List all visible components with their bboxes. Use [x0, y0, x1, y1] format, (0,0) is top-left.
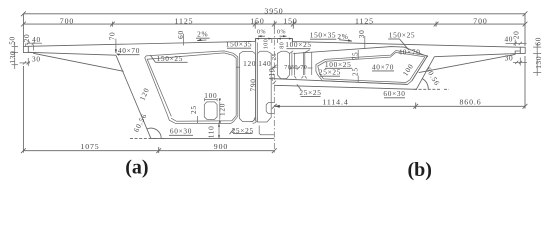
web outer face b [417, 57, 435, 89]
label 100x25 b near center [285, 40, 312, 49]
section b cell B1 near center [277, 51, 289, 78]
svg-text:30: 30 [357, 29, 366, 38]
right tip dims [504, 30, 542, 76]
svg-text:(a): (a) [125, 157, 148, 179]
cell B2 [302, 52, 304, 75]
svg-text:60×30: 60×30 [170, 127, 192, 136]
svg-text:25×25: 25×25 [319, 68, 341, 77]
bottom slab b top line [274, 79, 407, 85]
cantilever soffit left [28, 52, 116, 55]
svg-text:50: 50 [291, 65, 298, 71]
svg-text:0%: 0% [277, 30, 286, 36]
svg-text:70: 70 [107, 32, 116, 41]
left tip dims [8, 34, 42, 69]
cell a inner fillet accents [147, 53, 236, 121]
web outer face a [116, 55, 151, 138]
svg-text:150: 150 [283, 16, 297, 25]
deck center verticals and small dims [256, 38, 293, 50]
central wall pair a [255, 43, 257, 122]
dim 60 a ext [176, 30, 185, 45]
label 40x70 a [116, 46, 140, 56]
svg-text:25: 25 [350, 67, 359, 76]
label 2% a with arrow [196, 30, 210, 41]
svg-text:150×35: 150×35 [310, 31, 337, 40]
svg-text:860.6: 860.6 [459, 97, 481, 106]
svg-text:100×25: 100×25 [285, 40, 312, 49]
cell a2 narrow [239, 52, 255, 122]
svg-text:140: 140 [258, 59, 271, 68]
svg-text:60: 60 [176, 30, 185, 39]
svg-text:75: 75 [350, 52, 359, 61]
svg-text:70: 70 [300, 65, 307, 71]
drainage hole a [204, 102, 217, 120]
drip notch right [515, 51, 520, 54]
svg-text:150: 150 [250, 16, 264, 25]
svg-text:700: 700 [473, 16, 487, 25]
svg-text:150×25: 150×25 [389, 31, 416, 40]
dims 120 140 70 50 70 center row [236, 59, 313, 71]
svg-text:100: 100 [264, 39, 270, 50]
angle annotation b [414, 66, 449, 90]
dim 790 center a [248, 78, 257, 91]
svg-text:410: 410 [267, 68, 276, 81]
svg-text:1125: 1125 [355, 16, 374, 25]
hole dim 100 [204, 91, 217, 101]
centerline [273, 28, 275, 153]
bottom slab a [151, 137, 274, 139]
svg-text:30: 30 [505, 53, 514, 62]
svg-text:20: 20 [22, 34, 31, 43]
svg-text:25: 25 [272, 53, 278, 60]
lower chamfer line right [419, 54, 516, 72]
svg-text:20: 20 [512, 30, 521, 39]
label 120 diag web a [138, 86, 152, 102]
svg-text:790: 790 [248, 78, 257, 91]
dim 25 hole [189, 105, 198, 123]
angle annotation a [130, 112, 166, 139]
svg-text:60: 60 [534, 37, 543, 46]
dimension 3950 top chain [21, 7, 527, 17]
svg-text:50: 50 [8, 36, 17, 45]
wall faces b center [291, 53, 293, 76]
chamfer walls to deck [290, 51, 294, 54]
svg-text:0%: 0% [257, 30, 266, 36]
label 60x30 b [383, 89, 405, 98]
label 25x25 b cell [319, 68, 341, 77]
label 25x25 a with leader [230, 126, 254, 135]
dimension chain 700/1125/150/150/1125/700 [21, 14, 527, 46]
svg-text:100: 100 [204, 91, 217, 100]
svg-text:900: 900 [214, 142, 228, 151]
web inner face b [412, 56, 428, 81]
svg-text:25: 25 [189, 105, 198, 114]
svg-text:60×30: 60×30 [383, 89, 405, 98]
label 2% b with arrow [337, 32, 352, 42]
big cell b [316, 51, 428, 85]
main cell a outline [145, 51, 238, 124]
dim 110 slab a [207, 124, 220, 139]
edge beam left [23, 46, 28, 52]
svg-text:130: 130 [8, 51, 17, 64]
svg-text:1075: 1075 [80, 142, 99, 151]
half drainage hole at centerline a [266, 103, 274, 114]
center bottom recess a [250, 118, 274, 135]
svg-text:3950: 3950 [264, 7, 283, 16]
label 40x70 b top [398, 48, 420, 57]
cantilever soffit right [434, 53, 520, 56]
label 150x25 a [150, 54, 187, 63]
bottom slab b [274, 85, 417, 89]
svg-text:1125: 1125 [175, 16, 194, 25]
svg-text:40×70: 40×70 [372, 62, 394, 71]
bottom chain b 1114.4/860.6 [272, 56, 528, 109]
cell a3 [257, 51, 271, 122]
slab underside b [293, 47, 428, 57]
girder section a deck top [28, 39, 520, 48]
svg-text:25×25: 25×25 [299, 88, 321, 97]
svg-text:40×70: 40×70 [118, 46, 140, 55]
svg-text:120: 120 [243, 59, 256, 68]
label 100x25 b cell [325, 60, 352, 69]
svg-text:150×35: 150×35 [226, 40, 253, 49]
label 150x25 b right [388, 31, 415, 50]
svg-text:1114.4: 1114.4 [322, 97, 348, 106]
label 60x30 a [169, 127, 193, 136]
svg-text:30: 30 [32, 55, 41, 64]
dim 70 a ext [107, 32, 117, 54]
svg-text:150×25: 150×25 [157, 54, 184, 63]
label 40x70 b cell [372, 62, 394, 71]
dim 25 b [350, 67, 359, 82]
lower chamfer line left [33, 53, 123, 71]
dim 75 b [350, 50, 359, 60]
svg-text:110: 110 [207, 126, 216, 139]
edge beam right [520, 47, 525, 53]
dim 30 b ext [357, 29, 366, 49]
label 25x25 b with leader [297, 84, 322, 97]
hole dim 120 [217, 99, 226, 123]
0% labels [257, 30, 287, 38]
svg-text:2%: 2% [197, 30, 208, 39]
svg-text:40×70: 40×70 [398, 48, 420, 57]
svg-text:(b): (b) [407, 159, 431, 181]
svg-text:130: 130 [534, 56, 543, 69]
label 150x35 a [226, 40, 253, 49]
svg-text:120: 120 [217, 103, 226, 116]
drip notch left [28, 51, 33, 54]
svg-text:700: 700 [60, 16, 74, 25]
bottom chain a 1075/900 [21, 66, 277, 153]
label 150x35 b [310, 31, 337, 40]
